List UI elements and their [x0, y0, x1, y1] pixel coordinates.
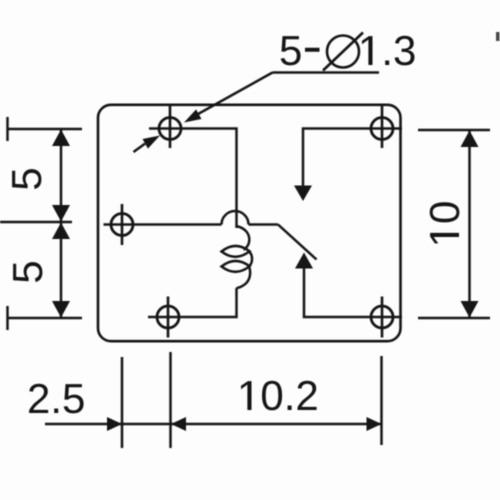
arrow down at y222 upper [52, 205, 70, 222]
wire from H2 to moving contact [303, 129, 362, 187]
moving contact arrow (down) [294, 186, 312, 202]
label 10 (rotated) [430, 202, 460, 243]
label 2.5 [29, 384, 84, 414]
arrow left at x171 [171, 417, 186, 431]
pad hole H1 top-left [149, 106, 191, 148]
pad hole H2 top-right [362, 106, 402, 148]
wire coil to switch blade [249, 223, 279, 226]
label 5 lower (rotated) [13, 262, 42, 282]
label 10.2 [241, 381, 317, 411]
coil L1 hump [222, 211, 249, 225]
dimension line 5 lower [60, 222, 63, 318]
hole callout label 5- [281, 36, 320, 65]
wire from H1 to coil top [191, 129, 237, 229]
wire coil bottom to H4 [188, 288, 237, 317]
arrow right at x122 [107, 417, 122, 431]
fixed contact arrow (up) [295, 253, 313, 269]
dimension left tick bottom [7, 317, 82, 320]
relay body outline [98, 105, 401, 341]
arrow up at y222 lower [52, 223, 70, 240]
bottom dimension line [45, 423, 382, 426]
small counter arrow tail [134, 144, 146, 152]
wire contact to H5 [304, 268, 362, 317]
dimension line 10 [468, 130, 471, 318]
coil L1 loop 1 [222, 246, 250, 257]
arrow up at y130 [461, 131, 479, 148]
pad hole H3 middle-left [104, 204, 143, 245]
bottom extension line at H5 x [380, 356, 383, 445]
stray mark top right edge [496, 32, 500, 41]
switch blade K1 [278, 225, 317, 260]
coil L1 top connector [237, 226, 250, 250]
coil L1 mid connector [249, 252, 252, 266]
callout shoulder line [273, 71, 380, 74]
small counter arrow [143, 136, 161, 149]
hole callout label 1.3 [362, 36, 415, 66]
dimension line 5 upper [60, 129, 63, 222]
wire from H3 to coil [142, 223, 222, 226]
coil L1 exit curl [237, 268, 251, 289]
dimension left tick top end dash [6, 117, 9, 141]
arrow down at y318 [52, 301, 70, 318]
callout leader arrow [184, 109, 202, 122]
pad hole H4 bottom-left [148, 297, 188, 338]
coil L1 loop 2 [222, 261, 250, 272]
dimension right tick bottom [418, 317, 490, 320]
arrow up at y129 [52, 130, 70, 147]
bottom extension line at H3 x [121, 357, 124, 448]
callout leader line [190, 73, 273, 119]
arrow right at x381 [367, 417, 382, 431]
bottom extension line at H4 x [169, 352, 172, 448]
hole callout diameter symbol [327, 36, 359, 68]
dimension left tick bottom end dash [6, 306, 9, 330]
dimension left tick middle [0, 221, 72, 224]
dimension left tick top [7, 128, 82, 131]
pad hole H5 bottom-right [362, 297, 402, 338]
arrow down at y318 [461, 301, 479, 318]
label 5 upper (rotated) [12, 169, 41, 189]
dimension right tick top [418, 129, 490, 132]
